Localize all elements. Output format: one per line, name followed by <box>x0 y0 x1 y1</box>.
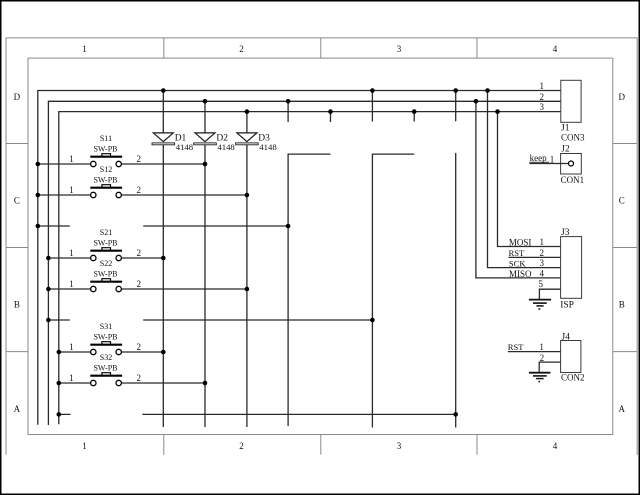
wire row net at y=320 (bus B to column V372, with gap) <box>48 319 372 321</box>
node junction at (58.8,352) <box>57 350 62 355</box>
connector J4 CON2 with RST net <box>508 332 585 382</box>
svg-text:S21: S21 <box>100 228 112 237</box>
node junction at (246.9,195) <box>245 193 250 198</box>
node junction at (48.4,289) <box>46 287 51 292</box>
svg-text:1: 1 <box>69 185 74 195</box>
svg-text:CON1: CON1 <box>561 175 585 185</box>
node junction at (414.2,111.6) <box>412 109 417 114</box>
wire column of D3 (vertical from bus to bottom) <box>246 112 248 427</box>
svg-text:2: 2 <box>136 373 141 383</box>
svg-text:A: A <box>619 404 626 414</box>
switch S12 SW-PB push button <box>38 165 247 198</box>
node junction at (37.8,195) <box>36 193 41 198</box>
node junction at (58.8,414.4) <box>57 412 62 417</box>
svg-text:B: B <box>14 299 20 309</box>
svg-text:2: 2 <box>136 279 141 289</box>
node junction at (288.1,101.3) <box>286 99 291 104</box>
wire stub V330 (from bus C) <box>330 112 332 122</box>
svg-text:4148: 4148 <box>259 142 277 152</box>
svg-text:1: 1 <box>82 441 87 451</box>
svg-text:1: 1 <box>69 279 74 289</box>
diode D2 4148 <box>194 133 236 152</box>
svg-text:5: 5 <box>539 279 544 289</box>
node junction at (163.3,352) <box>161 350 166 355</box>
svg-text:2: 2 <box>540 248 545 258</box>
svg-text:CON3: CON3 <box>561 132 585 142</box>
svg-text:2: 2 <box>540 353 545 363</box>
svg-text:J2: J2 <box>561 144 570 154</box>
svg-text:1: 1 <box>69 154 74 164</box>
svg-text:1: 1 <box>69 248 74 258</box>
svg-text:S11: S11 <box>100 134 112 143</box>
switch S22 SW-PB push button <box>48 259 247 291</box>
node junction at (205.0,101.3) <box>203 99 208 104</box>
svg-text:S31: S31 <box>100 322 112 331</box>
switch S21 SW-PB push button <box>48 228 163 261</box>
svg-text:CON2: CON2 <box>561 373 585 383</box>
wire row net at y=226 (bus A to column V288, with gap) <box>38 225 288 227</box>
svg-text:3: 3 <box>540 102 545 112</box>
wire bus A (row net 1: left vertical + top horizontal to J1 pin 1) <box>38 91 561 425</box>
svg-text:1: 1 <box>69 342 74 352</box>
svg-text:D: D <box>14 92 21 102</box>
svg-text:A: A <box>14 404 21 414</box>
node junction at (246.9,289) <box>245 287 250 292</box>
ground symbol at J3 pin 5 <box>529 300 551 309</box>
wire column V372 (stub from bus A + long vertical with top jog to x=414) <box>372 91 414 428</box>
node junction at (37.8,164) <box>36 162 41 167</box>
svg-text:4148: 4148 <box>217 142 235 152</box>
wire column V455 (stub from bus A + long vertical to bottom row) <box>455 91 457 428</box>
switch S32 SW-PB push button <box>59 353 205 385</box>
svg-text:J3: J3 <box>561 228 570 238</box>
wire RST net stub to J3 pin 2 <box>509 256 561 258</box>
svg-text:S32: S32 <box>100 353 112 362</box>
node junction at (497.5,111.6) <box>495 109 500 114</box>
svg-text:SCK: SCK <box>509 258 527 268</box>
svg-text:1: 1 <box>539 342 544 352</box>
node junction at (288.1,226) <box>286 224 291 229</box>
svg-text:SW-PB: SW-PB <box>93 175 117 184</box>
svg-text:3: 3 <box>397 441 402 451</box>
svg-text:S22: S22 <box>100 259 112 268</box>
svg-text:1: 1 <box>540 81 545 91</box>
connector J1 CON3 <box>540 80 585 142</box>
node junction at (163.3,258) <box>161 256 166 261</box>
svg-text:C: C <box>619 195 625 205</box>
switch S31 SW-PB push button <box>59 322 164 354</box>
switch S11 SW-PB push button <box>38 134 205 167</box>
node junction at (48.4,320) <box>46 318 51 323</box>
svg-text:RST: RST <box>508 342 525 352</box>
svg-text:J4: J4 <box>562 332 571 342</box>
svg-text:2: 2 <box>239 441 244 451</box>
svg-text:3: 3 <box>397 44 402 54</box>
wire stub V414 (from bus C) <box>413 112 415 122</box>
wire SCK net (from bus A down to J3 pin 3) <box>488 91 561 268</box>
wire column of D1 (vertical from bus to bottom) <box>162 91 164 428</box>
svg-text:2: 2 <box>136 342 141 352</box>
node junction at (455.7,414.4) <box>453 412 458 417</box>
svg-text:4: 4 <box>553 44 558 54</box>
node junction at (475.9,101.3) <box>474 99 479 104</box>
svg-text:4: 4 <box>553 441 558 451</box>
svg-text:3: 3 <box>540 258 545 268</box>
svg-text:C: C <box>14 195 20 205</box>
svg-text:1: 1 <box>550 154 555 164</box>
svg-text:2: 2 <box>136 248 141 258</box>
wire bottom row net at y=414.4 (bus C to column V455, with gap) <box>59 413 456 415</box>
node junction at (246.9,111.6) <box>245 109 250 114</box>
node junction at (330.5,111.6) <box>328 109 333 114</box>
wire MISO net (from bus B down to J3 pin 4) <box>476 101 561 278</box>
connector J2 CON1 with keep net <box>529 144 584 185</box>
svg-text:ISP: ISP <box>560 300 574 310</box>
svg-text:MOSI: MOSI <box>509 237 532 247</box>
node junction at (58.8,383) <box>57 381 62 386</box>
wire column V288 (stub from bus B + long vertical with top jog to x=330) <box>288 101 330 426</box>
node junction at (37.8,226) <box>36 224 41 229</box>
wire J3 pin 5 to ground <box>539 289 560 299</box>
node junction at (487.5,90.5) <box>485 88 490 93</box>
svg-text:2: 2 <box>136 154 141 164</box>
svg-text:4: 4 <box>540 269 545 279</box>
node junction at (455.7,90.5) <box>453 88 458 93</box>
node junction at (205.0,383) <box>203 381 208 386</box>
node junction at (372.4,90.5) <box>370 88 375 93</box>
svg-text:1: 1 <box>540 237 545 247</box>
svg-text:2: 2 <box>136 185 141 195</box>
svg-text:keep: keep <box>530 153 547 163</box>
wire MOSI net (from bus C down to J3 pin 1) <box>498 112 561 247</box>
wire bus C (row net 3: left vertical + top horizontal to J1 pin 3) <box>59 112 561 425</box>
svg-text:S12: S12 <box>100 165 112 174</box>
svg-text:B: B <box>619 299 625 309</box>
node junction at (372.4,320) <box>370 318 375 323</box>
svg-text:4148: 4148 <box>176 142 194 152</box>
svg-text:2: 2 <box>540 92 545 102</box>
connector J3 ISP <box>509 228 582 310</box>
svg-text:1: 1 <box>82 44 87 54</box>
svg-text:SW-PB: SW-PB <box>93 238 117 247</box>
ground symbol at J4 pin 2 <box>529 373 551 382</box>
svg-text:RST: RST <box>509 248 526 258</box>
svg-text:SW-PB: SW-PB <box>93 332 117 341</box>
svg-text:SW-PB: SW-PB <box>93 144 117 153</box>
diode D1 4148 <box>152 133 194 152</box>
svg-text:MISO: MISO <box>509 269 532 279</box>
svg-text:D: D <box>619 92 626 102</box>
node junction at (48.4,258) <box>46 256 51 261</box>
svg-text:SW-PB: SW-PB <box>93 269 117 278</box>
svg-text:2: 2 <box>239 44 244 54</box>
diode D3 4148 <box>236 133 278 152</box>
wire bus B (row net 2: left vertical + top horizontal to J1 pin 2) <box>48 101 560 425</box>
node junction at (205.0,164) <box>203 162 208 167</box>
svg-text:SW-PB: SW-PB <box>93 363 117 372</box>
svg-text:1: 1 <box>69 373 74 383</box>
node junction at (163.3,90.5) <box>161 88 166 93</box>
wire column of D2 (vertical from bus to bottom) <box>204 101 206 427</box>
